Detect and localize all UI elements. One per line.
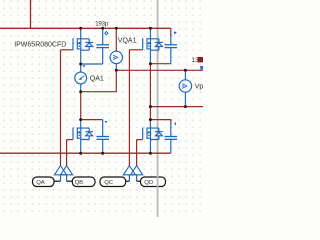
gate driver triangle A1	[55, 166, 73, 175]
wire: bottom DC bus	[0, 152, 171, 154]
marker: diamond at C1	[105, 32, 108, 35]
junction: Q2 drain at bus	[149, 27, 152, 30]
wire: triangle B2 output stub	[136, 175, 138, 181]
wire: gate lead Q2	[129, 49, 142, 51]
marker: blue square at right edge	[200, 66, 203, 70]
junction: VQA1 bottom node	[115, 69, 118, 72]
junction: Vph bottom node	[184, 105, 187, 108]
svg-text:QA: QA	[36, 180, 45, 186]
svg-text:QA1: QA1	[90, 75, 104, 82]
svg-text:QC: QC	[104, 180, 114, 186]
wire: VQA1 top lead	[115, 28, 117, 51]
transistor Q2 (high side leg B)	[143, 38, 163, 50]
junction: Q4 drain node	[149, 118, 152, 121]
wire: triangle A2 output stub	[66, 175, 68, 181]
wire: gate drive vertical QC	[128, 50, 130, 166]
wire: bus corner to C2	[170, 28, 172, 36]
wire: VQA1 bottom rail to right	[116, 69, 203, 71]
wire: gate drive vertical QD	[136, 140, 138, 166]
wire: Q4 source lead	[149, 140, 151, 154]
wire: gate lead Q1	[61, 49, 73, 51]
junction: Q1 source node	[79, 63, 82, 66]
wire: top DC bus	[0, 27, 171, 29]
marker: arrow at C3	[105, 121, 108, 123]
wire: gate drive vertical QA	[60, 50, 62, 166]
wire: gate lead Q3	[67, 139, 73, 141]
wire: tag QD link	[137, 180, 141, 182]
junction: probe bottom node	[79, 90, 82, 93]
transistor Q1 IPW65R080CFD (high side leg A)	[73, 38, 93, 50]
wire: phase B source rail	[150, 63, 170, 65]
wire: tag QC link	[126, 180, 130, 182]
junction: Q1 drain at bus	[79, 27, 82, 30]
wire: lower rail B to right	[150, 106, 203, 108]
gate driver triangle B2	[131, 166, 143, 175]
capacitor C4	[165, 123, 178, 153]
junction: Q3 source at bus	[79, 152, 82, 155]
wire: gate lead Q4	[137, 139, 143, 141]
svg-text:IPW65R080CFD: IPW65R080CFD	[14, 41, 66, 48]
wire: snubber B lower feed	[150, 120, 170, 124]
junction: Q3 drain node	[79, 118, 82, 121]
wire: tag QB link	[67, 180, 73, 182]
junction: VQA1 at bus	[115, 27, 118, 30]
wire: triangle A1 output stub	[60, 175, 62, 181]
wire: left input vertical	[30, 0, 32, 28]
node tag QC	[100, 177, 126, 187]
junction: Q4 source at bus	[149, 152, 152, 155]
wire: snubber A lower feed	[81, 119, 103, 121]
transistor Q3 (low side leg A)	[73, 128, 93, 140]
svg-text:193p: 193p	[95, 20, 109, 27]
wire: Q3 source lead	[80, 140, 82, 154]
wire: phase B vertical	[149, 64, 151, 120]
marker: arrow at Q1 source	[82, 65, 85, 67]
page border gray line	[157, 0, 159, 217]
wire: Q2 source lead	[149, 50, 151, 64]
node tag QD	[141, 177, 166, 187]
junction: Vph top node	[184, 69, 187, 72]
wire: gate drive vertical QB	[66, 140, 68, 166]
junction: C3 at bus	[101, 152, 104, 155]
capacitor C1 193p	[96, 28, 109, 64]
voltage source VQA1	[110, 51, 122, 70]
junction: C1 at bus	[101, 27, 104, 30]
gate driver triangle B1	[123, 166, 142, 175]
voltage source Vph	[179, 70, 191, 106]
svg-text:QD: QD	[144, 180, 153, 186]
node tag QA	[33, 177, 55, 187]
wire: Q3 drain lead	[80, 120, 82, 129]
wire: Q4 drain lead	[149, 120, 151, 129]
wire: C1 bottom to Q1 source	[81, 63, 103, 65]
current probe QA1	[75, 64, 87, 92]
wire: phase A to VQA1 return	[81, 70, 117, 91]
junction: rail B node	[149, 105, 152, 108]
wire: Q1 source lead	[80, 50, 82, 64]
marker: arrow at C2	[174, 31, 177, 34]
svg-text:VQA1: VQA1	[118, 37, 137, 44]
capacitor C3	[96, 120, 109, 154]
svg-text:QB: QB	[75, 180, 84, 186]
marker: tick at C4	[175, 123, 176, 125]
svg-text:Vph: Vph	[195, 83, 203, 90]
node tag QB	[72, 177, 95, 187]
wire: Q2 drain lead	[149, 28, 151, 39]
junction: Q2 source node	[149, 62, 152, 65]
wire: Q1 drain lead	[80, 28, 82, 39]
gate driver triangle A2	[61, 166, 73, 175]
transistor Q4 (low side leg B)	[143, 128, 163, 140]
page border gray line over tag	[157, 176, 159, 188]
wire: triangle B1 output stub	[128, 175, 130, 181]
capacitor C2	[165, 34, 178, 64]
wire: tag QA link	[54, 180, 61, 182]
wire: phase A mid node down	[80, 92, 82, 120]
